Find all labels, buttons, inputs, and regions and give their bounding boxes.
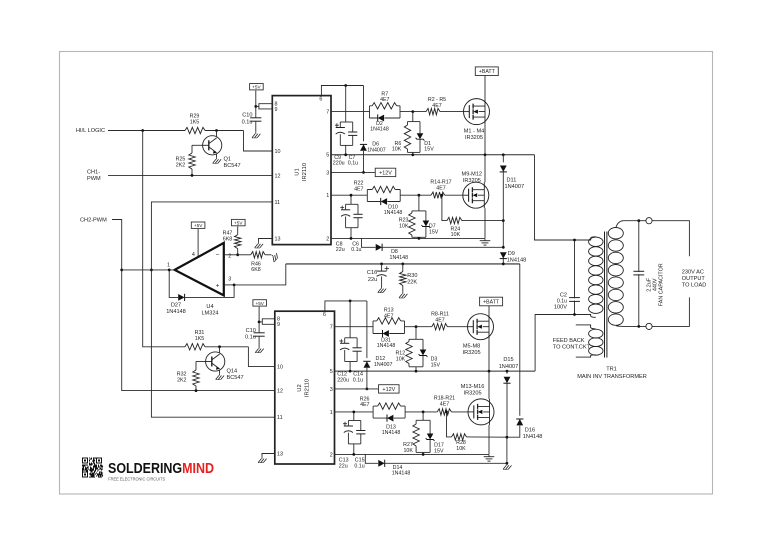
wire clamp C bottom bar (409, 366, 423, 368)
supply +BATT C (480, 297, 503, 306)
wire clamp B to rail (418, 237, 420, 238)
svg-text:5: 5 (330, 369, 333, 375)
svg-text:2: 2 (326, 236, 329, 242)
node clamp B rail (418, 237, 421, 240)
wire R23 leg bottom (411, 235, 413, 237)
resistor R13 (377, 318, 401, 324)
resistor R25 (189, 153, 195, 169)
node pins 8 9 U1 (254, 105, 257, 108)
supply +5V R47 (232, 219, 246, 225)
svg-text:R30: R30 (407, 273, 417, 279)
svg-text:2K2: 2K2 (177, 378, 186, 384)
svg-text:7: 7 (330, 325, 333, 331)
svg-text:1N4148: 1N4148 (507, 257, 527, 263)
svg-text:0.1u: 0.1u (354, 463, 364, 469)
wire R29 to Q1 collector (205, 130, 244, 132)
svg-text:U2: U2 (297, 384, 303, 391)
wire C8C6 riser top (350, 195, 352, 204)
wire source M13-M16 (488, 425, 490, 455)
wire C7 0.1u leg top (352, 122, 354, 132)
terminal output bottom (646, 323, 652, 329)
wire CH1-PWM to U1 pin 12 (108, 174, 272, 176)
svg-text:1N4007: 1N4007 (499, 364, 519, 370)
wire R23 leg (411, 211, 413, 213)
capacitor C16 (377, 271, 387, 276)
svg-text:D9: D9 (508, 251, 515, 257)
ground R30 (399, 292, 407, 298)
resistor R14-R17 (431, 192, 445, 198)
wire R22D10 to junction (400, 194, 431, 196)
wire Q1 emitter (216, 154, 218, 157)
node C8C6 top (350, 194, 353, 197)
node R25 CH1 (191, 174, 194, 177)
diode D16 1N4148 (516, 419, 523, 425)
wire R6 leg (407, 122, 409, 125)
supply +BATT A (475, 67, 498, 76)
resistor R29 (185, 127, 205, 133)
svg-text:HI/L LOGIC: HI/L LOGIC (76, 128, 105, 134)
wire U1 pin 8 stub (259, 104, 272, 109)
wire U2 pin1 out (335, 411, 374, 413)
wire U1 pin6 VB (321, 86, 363, 96)
svg-text:15V: 15V (434, 448, 444, 454)
wire D6 cathode (363, 86, 365, 142)
wire opamp pin2 (224, 254, 238, 256)
svg-text:6: 6 (319, 96, 322, 102)
svg-text:+5V: +5V (252, 85, 261, 90)
resistor R27 (413, 424, 419, 446)
wire R24 elbow (442, 195, 447, 220)
svg-text:Q14: Q14 (227, 369, 238, 375)
svg-text:FEED BACK: FEED BACK (553, 338, 585, 344)
wire HI LOGIC input (108, 130, 185, 132)
wire C8C6 riser bottom (350, 228, 352, 239)
svg-text:0.1u: 0.1u (353, 378, 363, 384)
svg-text:IR3205: IR3205 (465, 135, 483, 141)
node caps2 rail (349, 370, 352, 373)
svg-text:9: 9 (275, 107, 278, 113)
wire R30 riser (402, 264, 404, 272)
wire C9C7 bottom bar (340, 144, 352, 146)
svg-text:0,1u: 0,1u (348, 161, 358, 167)
transistor Q1 (203, 136, 222, 155)
node bootstrap2 cap top (349, 300, 352, 303)
wire D16 to node (507, 426, 520, 438)
capacitor C9 220u (336, 128, 345, 135)
svg-text:IR2110: IR2110 (305, 379, 311, 397)
diode D12 1N4007 (363, 361, 370, 367)
svg-text:C16: C16 (367, 270, 377, 276)
svg-text:4E7: 4E7 (436, 185, 445, 191)
svg-text:1K5: 1K5 (195, 336, 204, 342)
svg-text:0.1u: 0.1u (242, 119, 253, 125)
svg-text:2: 2 (330, 452, 333, 458)
node gate drive C (415, 325, 418, 328)
node Q14 collector (218, 345, 221, 348)
ground U1 pin 13 (255, 242, 263, 248)
node pin3 (233, 284, 236, 287)
wire R27 leg (415, 420, 417, 424)
wire C13C15 riser bottom (353, 444, 355, 455)
wire clamp A riser (412, 112, 414, 122)
wire clamp C riser (415, 327, 417, 340)
wire pin3 to bus (234, 264, 286, 285)
wire bracket link U2 (259, 321, 262, 323)
wire opamp pin4 supply (197, 229, 199, 258)
wire D17 leg bottom (429, 440, 431, 453)
C2 hide riser between plates (574, 298, 576, 300)
wire C16 riser (381, 264, 383, 271)
node D11 rail (502, 153, 505, 156)
svg-text:1N4148: 1N4148 (377, 343, 396, 349)
capacitor C10b (254, 333, 265, 336)
wire CH2-PWM (112, 220, 275, 391)
wire clamp C top bar (409, 338, 423, 340)
wire +5V riser U1 (255, 91, 257, 118)
node D14 ground (506, 462, 509, 465)
wire D7 leg (425, 211, 427, 221)
wire D11 top (502, 155, 504, 163)
zener D7 15V (422, 221, 431, 228)
wire pin2 to D14 (365, 454, 378, 463)
svg-text:+BATT: +BATT (479, 69, 496, 75)
wire R28 elbow (447, 412, 452, 437)
svg-text:13: 13 (277, 451, 283, 457)
C13 22u polarity (343, 422, 347, 426)
wire C8 22u leg bottom (345, 217, 347, 228)
wire clamp D top bar (416, 419, 430, 421)
wire C13C15 riser top (353, 412, 355, 421)
wire U2 pin3 +12V (335, 388, 379, 390)
wire D8 to D9 node (382, 246, 503, 248)
svg-text:15V: 15V (431, 362, 441, 368)
node pin2 R46 (236, 253, 239, 256)
svg-text:+5V: +5V (234, 221, 243, 226)
network R13 D31 parallel (373, 321, 405, 334)
wire C8C6 top bar (346, 203, 358, 205)
capacitor C6 0.1u (353, 214, 362, 217)
wire R47 to pin2 (237, 249, 239, 255)
svg-text:FAN CAPACITOR: FAN CAPACITOR (659, 263, 665, 306)
wire U2 pin7 out (335, 326, 374, 328)
wire D1 leg (419, 122, 421, 134)
node fan cap top (637, 219, 640, 222)
wire to D14 node (506, 437, 508, 463)
svg-text:4E7: 4E7 (354, 187, 363, 193)
svg-text:C2: C2 (560, 292, 567, 298)
wire U2 pin 8 stub (262, 319, 275, 325)
svg-text:220u: 220u (333, 161, 345, 167)
wire base to R32 (195, 362, 197, 371)
wire C2 riser (574, 240, 576, 315)
svg-text:1: 1 (167, 262, 170, 268)
node C2 bottom (573, 313, 576, 316)
svg-text:IR3205: IR3205 (463, 350, 481, 356)
resistor R7 (372, 103, 396, 109)
wire source M1-M4 (484, 125, 486, 155)
svg-text:4E7: 4E7 (440, 402, 449, 408)
svg-text:BC547: BC547 (227, 375, 244, 381)
svg-text:1N4148: 1N4148 (166, 309, 186, 315)
capacitor C12 220u (340, 343, 349, 350)
capacitor C15 0.1u (356, 431, 365, 434)
node R24 gate (441, 194, 444, 197)
wire C13 22u leg top (347, 421, 349, 427)
svg-text:3: 3 (330, 387, 333, 393)
svg-text:0.1u: 0.1u (351, 247, 361, 253)
svg-text:0.1u: 0.1u (245, 334, 256, 340)
wire to U1 pin 10 (244, 131, 273, 152)
wire feedback top lead (576, 324, 591, 326)
svg-text:10K: 10K (403, 448, 413, 454)
zener D17 15V (426, 434, 435, 441)
transformer TR1 feedback winding (589, 325, 603, 357)
node D12 +12V (366, 388, 369, 391)
C9 220u polarity (335, 123, 339, 127)
wire C12C14 riser top (349, 301, 351, 338)
node HI LOGIC junction (141, 129, 144, 132)
wire D7 leg bottom (425, 227, 427, 238)
wire D12 anode (366, 368, 368, 389)
svg-text:10: 10 (275, 149, 281, 155)
svg-text:22u: 22u (368, 277, 377, 283)
wire Q1 base (192, 144, 203, 146)
wire C6 0.1u leg bottom (357, 218, 359, 228)
resistor R26 (378, 403, 401, 409)
wire R12 leg bottom (408, 364, 410, 367)
svg-text:6: 6 (323, 312, 326, 318)
svg-text:10K: 10K (399, 224, 409, 230)
wire D1 leg bottom (419, 139, 421, 152)
svg-text:4: 4 (192, 252, 195, 258)
svg-text:15V: 15V (424, 147, 434, 153)
svg-text:22K: 22K (407, 279, 417, 285)
svg-text:TO CONT.CKT: TO CONT.CKT (553, 345, 591, 351)
svg-text:+12V: +12V (379, 170, 392, 176)
svg-text:4E7: 4E7 (432, 103, 441, 109)
svg-text:M5-M8: M5-M8 (463, 343, 480, 349)
node gate drive D (422, 411, 425, 414)
svg-text:+: + (216, 283, 220, 290)
node bootstrap cap top (344, 84, 347, 87)
C16 polarity (385, 266, 389, 270)
wire drain M9-M12 (484, 155, 486, 182)
svg-text:SOLDERINGMIND: SOLDERINGMIND (108, 460, 214, 477)
svg-text:2K2: 2K2 (176, 163, 185, 169)
wire C14 0.1u leg bottom (356, 351, 358, 361)
svg-text:U1: U1 (295, 168, 301, 175)
resistor R28 (452, 434, 467, 440)
wire D3 leg bottom (422, 356, 424, 367)
wire C12C14 riser bottom (349, 362, 351, 372)
svg-text:Q1: Q1 (224, 156, 231, 162)
wire C7 0.1u leg bottom (352, 135, 354, 145)
svg-text:D11: D11 (507, 177, 517, 183)
wire clamp D riser (422, 412, 424, 420)
svg-text:1N4148: 1N4148 (384, 210, 403, 216)
svg-text:220u: 220u (337, 378, 349, 384)
svg-text:9: 9 (277, 322, 280, 328)
wire gate B (445, 194, 463, 196)
node R28 gate (445, 411, 448, 414)
svg-text:IR2110: IR2110 (302, 163, 308, 181)
wire R6 leg bottom (407, 149, 409, 152)
diode D9 1N4148 (500, 252, 507, 258)
svg-text:TO LOAD: TO LOAD (682, 283, 706, 289)
mosfet M1-M4 (464, 99, 490, 125)
node clamp A rail (411, 153, 414, 156)
zener D3 15V (419, 350, 428, 357)
wire D15 top (506, 371, 508, 374)
wire D15 to node (506, 383, 508, 437)
svg-text:IR3205: IR3205 (464, 391, 482, 397)
node fan cap bottom (637, 325, 640, 328)
svg-text:D15: D15 (503, 357, 513, 363)
wire C15 0.1u leg bottom (360, 434, 362, 444)
mosfet M5-M8 (468, 314, 494, 340)
node R32 CH2 (195, 389, 198, 392)
wire C6 0.1u leg top (357, 204, 359, 214)
wire D27 to pin3 (185, 285, 234, 298)
wire D17 leg (429, 420, 431, 433)
wire D3 leg (422, 339, 424, 349)
diode D15 1N4007 (503, 377, 510, 383)
ground C10b (255, 347, 263, 353)
op-amp U4 LM324 (175, 243, 224, 296)
resistor R47 (235, 235, 241, 249)
svg-text:12: 12 (275, 173, 281, 179)
network R26 D13 parallel (373, 406, 405, 418)
svg-text:TR1: TR1 (606, 366, 617, 372)
C12 220u polarity (339, 339, 343, 343)
node C13C15 top (352, 411, 355, 414)
wire C12 220u leg bottom (344, 350, 346, 362)
node R30 bus (401, 263, 404, 266)
wire Q14 emitter (219, 370, 221, 373)
wire clamp C to rail (415, 367, 417, 371)
wire U1 pin7 out (331, 111, 370, 113)
wire R27 leg bottom (415, 446, 417, 452)
capacitor C13 22u (344, 426, 353, 433)
wire C9C7 riser bottom (345, 145, 347, 154)
node gate drive A (411, 110, 414, 113)
node caps rail (344, 153, 347, 156)
diode D8 1N4148 (376, 244, 382, 251)
wire pin2 to D8 (362, 238, 376, 247)
ground output clamp (503, 463, 511, 469)
svg-text:M9-M12: M9-M12 (462, 171, 483, 177)
svg-text:CH2-PWM: CH2-PWM (80, 218, 107, 224)
svg-text:1K5: 1K5 (190, 120, 199, 126)
svg-text:10K: 10K (392, 147, 402, 153)
node R24 D11 (502, 219, 505, 222)
wire to D9 (502, 221, 504, 249)
svg-text:+5V: +5V (194, 223, 203, 228)
wire clamp A top bar (408, 121, 421, 123)
wire Q14 collector (219, 347, 221, 353)
svg-text:PWM: PWM (87, 176, 101, 182)
fan cap hide riser (638, 272, 640, 274)
node gate drive B (418, 194, 421, 197)
capacitor C7 0.1u (348, 132, 357, 135)
svg-text:3: 3 (228, 277, 231, 283)
wire opamp pin1 (122, 269, 175, 271)
wire C8 22u leg top (345, 204, 347, 210)
network R7 D2 parallel (370, 106, 401, 118)
node CH2 opamp (120, 269, 123, 272)
supply +5V U1 (250, 84, 264, 90)
wire R13D31 to junction (405, 326, 432, 328)
resistor R22 (372, 186, 395, 192)
wire R47 top (237, 226, 239, 234)
wire mid bus (286, 263, 520, 265)
wire C10b to ground (258, 336, 260, 346)
svg-text:10K: 10K (396, 356, 406, 362)
ground U2 pin 13 (258, 457, 266, 463)
ground R46 (269, 252, 279, 262)
wire C9C7 riser top (345, 86, 347, 123)
node clamp D rail (422, 453, 425, 456)
ground Q14 emitter (216, 373, 224, 379)
wire output bottom (652, 297, 689, 326)
network R22 D10 parallel (367, 190, 400, 202)
wire R7D2 to junction (400, 111, 426, 113)
wire C9 220u leg top (339, 122, 341, 128)
supply +12V U1 (375, 168, 396, 176)
wire opamp pin3 (224, 284, 234, 286)
wire source M5-M8 (488, 340, 490, 371)
node half-bridge C (488, 370, 491, 373)
svg-text:5: 5 (326, 153, 329, 159)
ground C10 (252, 132, 260, 138)
svg-text:1N4007: 1N4007 (505, 184, 525, 190)
svg-text:1: 1 (326, 193, 329, 199)
node R28 D16 (506, 436, 509, 439)
wire VS to transformer bottom (535, 315, 591, 372)
capacitor C8 22u (341, 210, 350, 217)
resistor R8-R11 (432, 324, 448, 330)
svg-text:+12V: +12V (382, 387, 395, 393)
node C13C15 bottom (352, 453, 355, 456)
svg-text:1N4148: 1N4148 (392, 471, 411, 477)
node Q1 collector (215, 129, 218, 132)
wire fan cap line (638, 221, 640, 327)
resistor R23 (409, 213, 415, 235)
svg-text:1: 1 (330, 410, 333, 416)
wire U2 pin6 VB (325, 301, 367, 311)
wire C13C15 bottom bar (348, 443, 360, 445)
wire C9 220u leg bottom (339, 134, 341, 145)
svg-text:D16: D16 (525, 428, 535, 434)
ground power upper (480, 239, 491, 245)
node D9 bus (502, 263, 505, 266)
svg-text:3: 3 (326, 170, 329, 176)
wire U1 pin2 rail (331, 237, 485, 239)
wire C13C15 top bar (348, 420, 360, 422)
diode D6 1N4007 (360, 144, 367, 150)
wire clamp A bottom bar (408, 151, 421, 153)
svg-text:10K: 10K (451, 232, 461, 238)
transformer TR1 core (605, 232, 607, 358)
wire D11 to R24 node (502, 172, 504, 221)
supply +12V U2 (379, 385, 400, 393)
node pin11 opamp (150, 269, 153, 272)
svg-text:22u: 22u (336, 247, 345, 253)
wire clamp A to rail (412, 152, 414, 154)
resistor R31 (185, 344, 205, 350)
wire C12 220u leg top (344, 338, 346, 344)
node D15 rail (506, 370, 509, 373)
